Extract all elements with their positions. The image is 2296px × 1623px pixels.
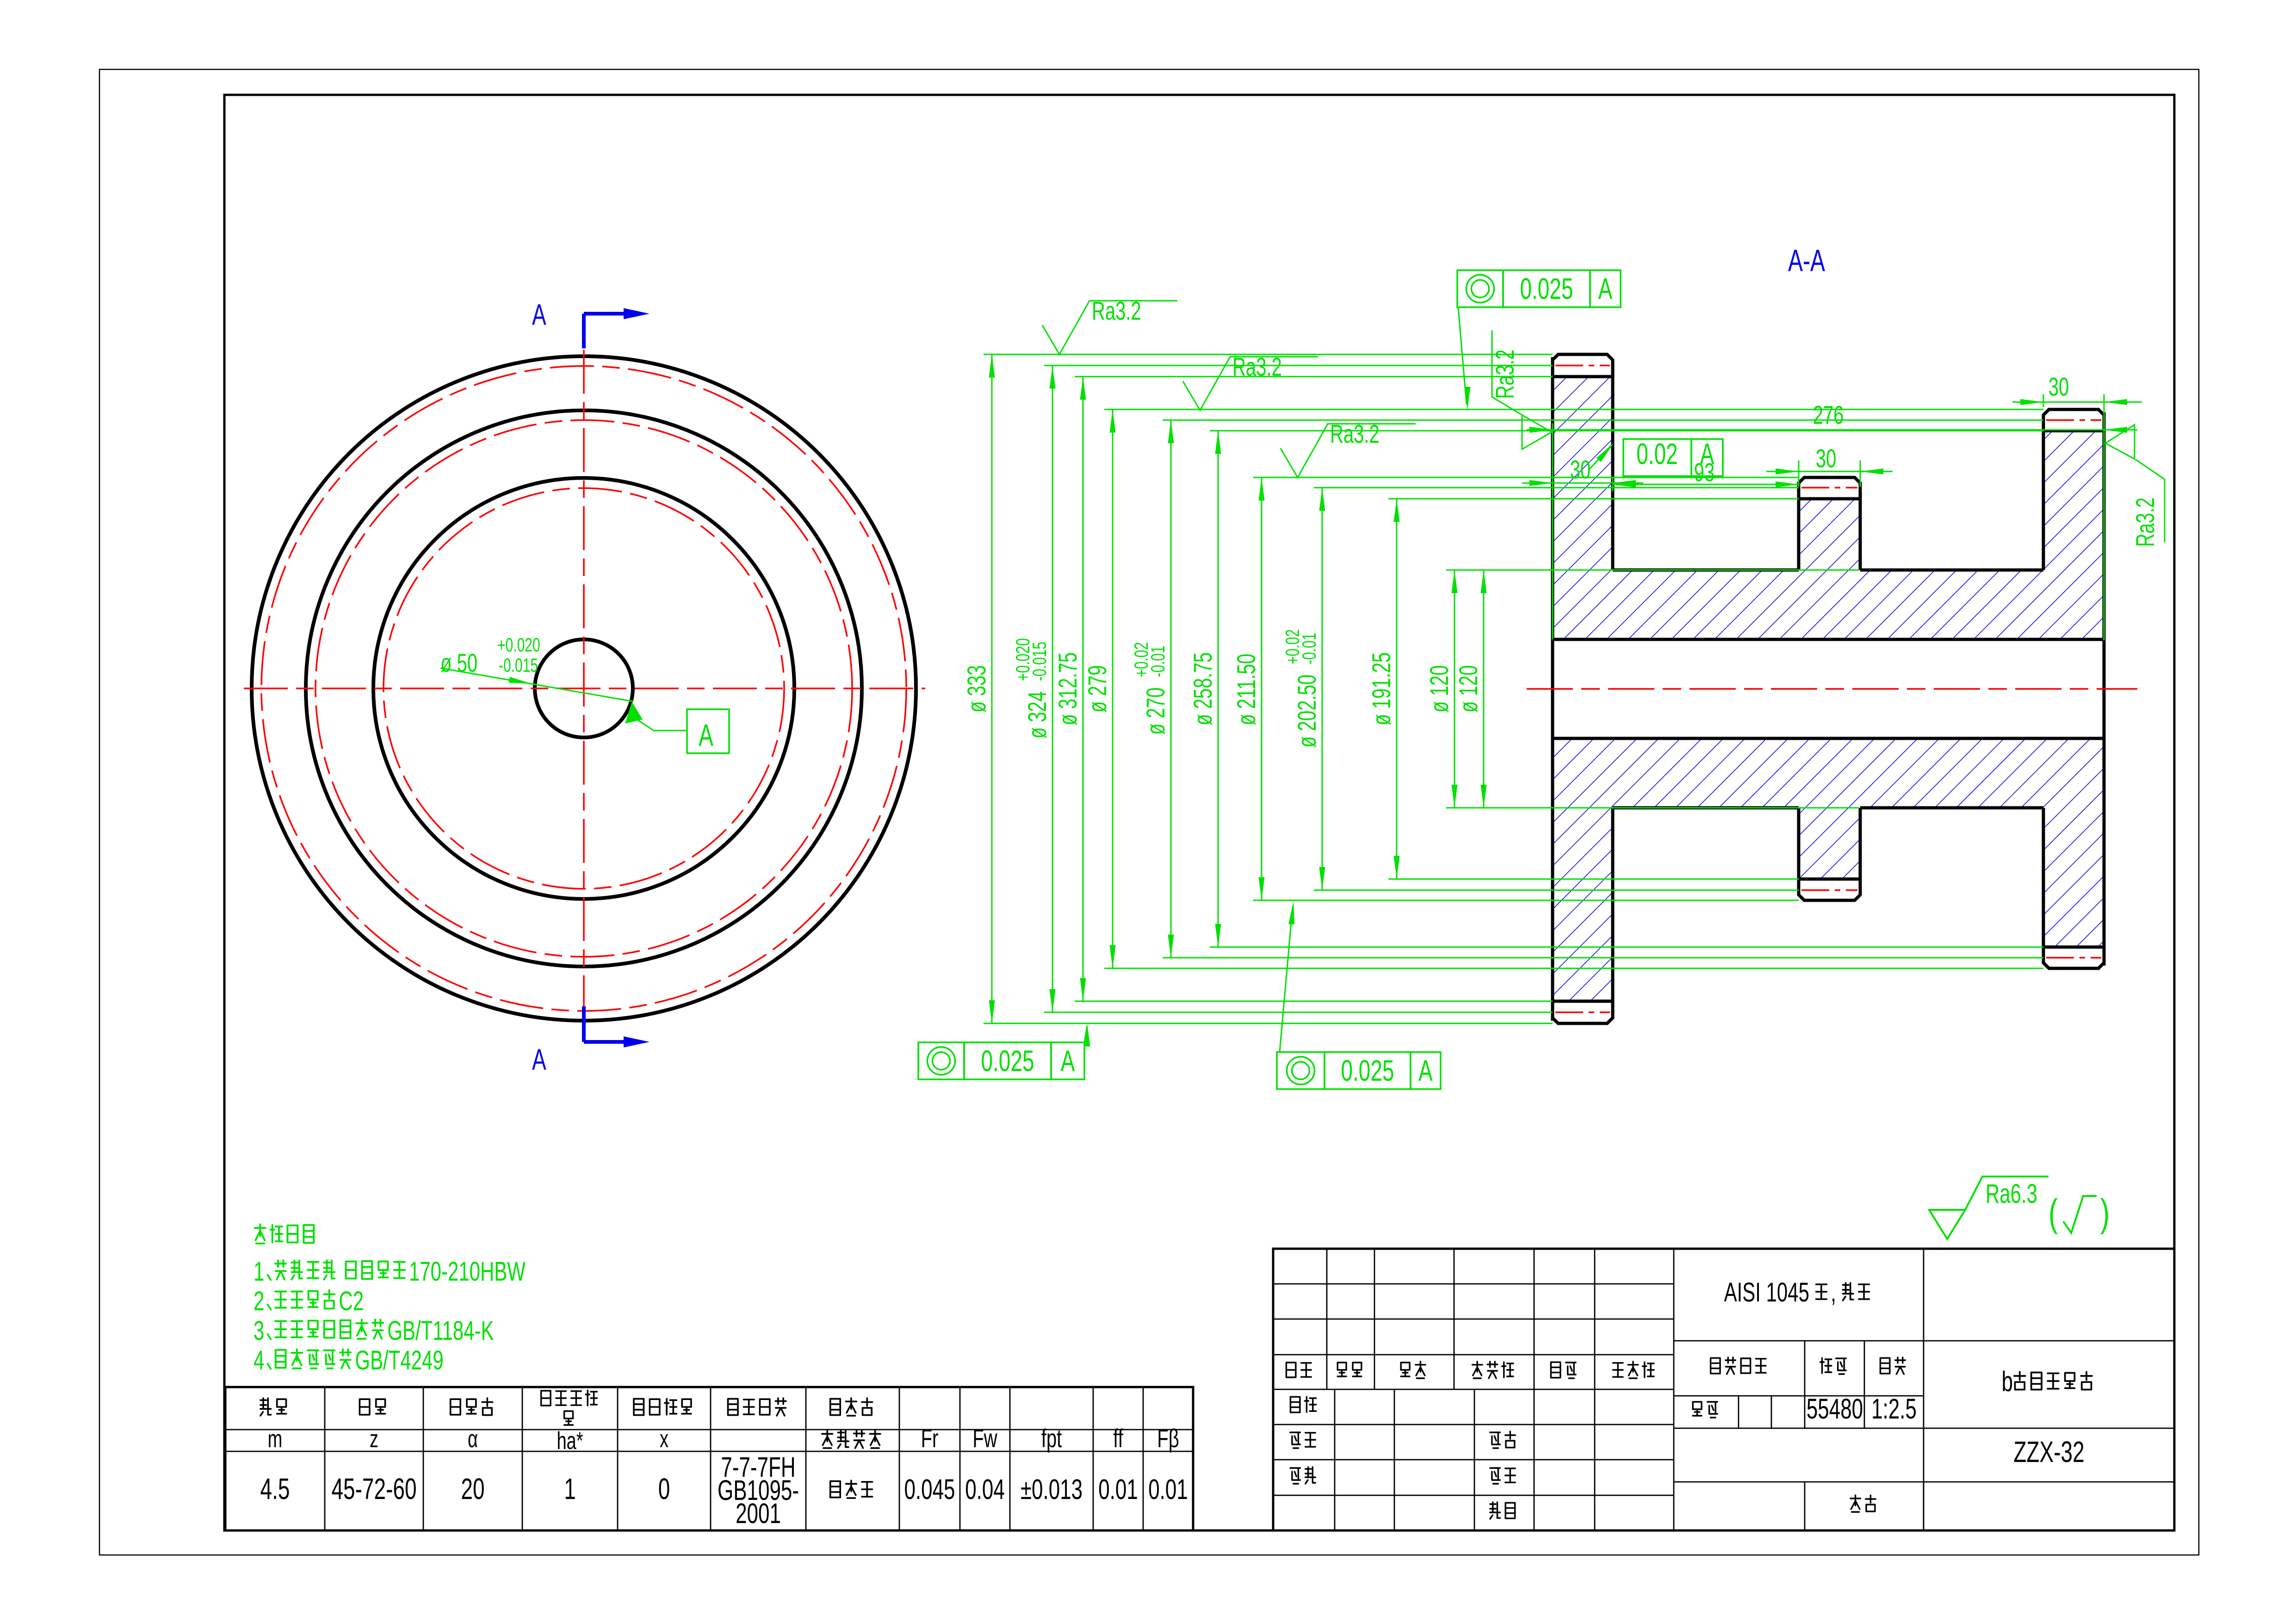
svg-text:1: 1 [254,1256,264,1286]
svg-text:α: α [468,1425,478,1453]
svg-text:30: 30 [1816,445,1837,473]
svg-text:0.01: 0.01 [1148,1474,1188,1505]
right end face [2103,412,2106,966]
dim ø 120 [1483,570,1485,808]
svg-text:ø 270: ø 270 [1142,688,1170,735]
svg-text:ø 120: ø 120 [1425,665,1454,712]
svg-text:4.5: 4.5 [260,1473,290,1505]
bottom-left frame leader [1084,1026,1087,1042]
svg-text:ø 324: ø 324 [1023,691,1052,738]
svg-text:Ra3.2: Ra3.2 [1491,349,1520,399]
gear3 column edges [2042,431,2045,570]
svg-text:0.025: 0.025 [981,1045,1034,1078]
svg-text:AISI 1045: AISI 1045 [1724,1277,1809,1307]
dim ø 324 [1052,365,1053,1012]
svg-text:ø 279: ø 279 [1083,665,1112,712]
runout frame 0.02 A [1623,439,1691,476]
gear1 pitch lines red [1555,365,1610,366]
gear2 column edges [1797,499,1801,570]
gear3 pitch lines red [2046,419,2101,421]
top frame leader [1458,307,1467,404]
dim ø 120 [1454,570,1455,808]
barrel surfaces [1613,569,1799,572]
dim ø 202.50 [1322,488,1323,890]
svg-text:0.04: 0.04 [965,1474,1005,1505]
concentricity frame bottom-middle [1277,1052,1324,1089]
section centerline red [1527,688,2137,690]
svg-text:ZZX-32: ZZX-32 [2013,1436,2084,1468]
section cut mark A bottom [582,1006,586,1042]
svg-text:Ra6.3: Ra6.3 [1986,1178,2037,1208]
svg-text:Fr: Fr [921,1425,939,1453]
sheet inner border frame [224,95,2174,1530]
dim 30 left flange with leader [1522,483,1643,484]
dim ø 279 [1112,409,1114,968]
svg-text:GB/T4249: GB/T4249 [355,1345,443,1375]
front view tip circle o279 [306,410,862,966]
svg-text:45-72-60: 45-72-60 [331,1473,416,1505]
dim ø 270 [1170,420,1172,958]
gear3 rim caps [2043,409,2104,431]
svg-text:b: b [2002,1366,2013,1398]
datum A triangle and box [625,702,643,724]
dim 30 middle gear [1798,460,1800,487]
svg-text:4: 4 [254,1345,264,1375]
svg-text:ø 258.75: ø 258.75 [1189,652,1218,725]
svg-text:x: x [660,1425,668,1453]
svg-text:-0.015: -0.015 [499,654,538,676]
front view tip circle o333 [252,356,916,1021]
svg-text:0.045: 0.045 [904,1474,955,1505]
svg-text:0.01: 0.01 [1098,1474,1138,1505]
gear1 column edges [1611,377,1615,570]
svg-text:20: 20 [461,1473,484,1505]
svg-text:ø 191.25: ø 191.25 [1368,652,1396,725]
dim ø 211.50 [1261,477,1262,900]
svg-text:ø 333: ø 333 [963,665,991,712]
svg-text:ø 202.50: ø 202.50 [1293,675,1322,748]
concentricity frame bottom-left [918,1042,964,1079]
svg-text:170-210HBW: 170-210HBW [409,1256,526,1286]
parameter table [225,1387,1193,1530]
svg-text:0.025: 0.025 [1341,1054,1394,1087]
section cut mark A top [582,314,586,348]
svg-text:A: A [699,718,713,753]
section hatching [1553,377,1613,570]
svg-text:0.02: 0.02 [1636,438,1678,471]
gear1 rim caps [1553,354,1613,377]
front view pitch circle o270 [316,420,852,957]
dim 30 right flange [2043,394,2044,407]
svg-text:30: 30 [2048,373,2069,402]
extension verticals on part faces [1552,423,1553,639]
svg-text:z: z [370,1425,378,1453]
bore leader [440,668,633,701]
svg-text:GB/T1184-K: GB/T1184-K [387,1315,494,1345]
svg-text:Fβ: Fβ [1157,1425,1179,1453]
gear2 pitch lines red [1801,487,1857,489]
svg-text:Ra3.2: Ra3.2 [1330,420,1380,449]
svg-text:C2: C2 [339,1286,364,1316]
front view horizontal centerline [244,688,925,689]
svg-text:1:2.5: 1:2.5 [1871,1394,1917,1425]
front view vertical centerline [583,350,585,1028]
front view pitch circle o202.5 [384,488,784,889]
svg-text:ø 312.75: ø 312.75 [1054,652,1083,725]
svg-text:A: A [1061,1045,1075,1078]
svg-text:ff: ff [1113,1425,1123,1453]
svg-text:A: A [1598,273,1613,305]
Ra3.2 rotated right face [2105,425,2165,542]
svg-text:(: ( [2048,1191,2058,1234]
svg-text:m: m [268,1425,283,1453]
svg-text:fpt: fpt [1041,1425,1062,1453]
concentricity frame top [1457,270,1503,307]
extension lines [984,354,1553,355]
Ra6.3 symbol near title block [1929,1177,2048,1239]
gear2 rim caps [1799,477,1860,499]
svg-text:-0.01: -0.01 [1298,633,1320,664]
title block texts [1286,1363,1296,1377]
technical requirements [255,1224,266,1243]
svg-text:A: A [1700,438,1714,471]
svg-text:30: 30 [1570,456,1591,484]
dim ø 191.25 [1396,499,1398,879]
dim 276 [1527,429,2137,431]
svg-text:-0.015: -0.015 [1028,642,1050,681]
front view bore circle o50 [535,639,633,737]
svg-text:Fw: Fw [972,1425,997,1453]
left end face [1551,357,1554,1021]
svg-text:+0.020: +0.020 [497,634,540,656]
svg-text:1: 1 [564,1473,576,1505]
svg-text:ø 211.50: ø 211.50 [1232,654,1261,725]
svg-text:ha*: ha* [557,1427,583,1455]
svg-text:A-A: A-A [1788,243,1825,278]
svg-text:276: 276 [1813,401,1844,430]
svg-text:±0.013: ±0.013 [1021,1474,1083,1505]
dim ø 258.75 [1218,431,1219,947]
svg-text:3: 3 [254,1315,264,1345]
svg-text:ø 120: ø 120 [1454,665,1483,712]
svg-text:2001: 2001 [736,1498,781,1530]
svg-text:A: A [532,1043,546,1076]
svg-text:Ra3.2: Ra3.2 [2131,497,2160,547]
svg-text:55480: 55480 [1807,1394,1863,1425]
svg-text:Ra3.2: Ra3.2 [1232,353,1282,382]
svg-text:0.025: 0.025 [1520,273,1573,305]
Ra3.2 symbol 1 [1042,301,1177,354]
Ra3.2 symbol 3 [1281,424,1416,477]
svg-text:Ra3.2: Ra3.2 [1092,297,1141,326]
svg-text:,: , [1831,1277,1836,1307]
svg-text:): ) [2100,1191,2110,1234]
bore walls [1553,638,2104,641]
Ra3.2 rotated left flange face [1492,330,1552,449]
svg-text:2: 2 [254,1286,264,1316]
table header row1 [260,1398,271,1416]
svg-text:A: A [1418,1054,1433,1087]
title block [1273,1249,2174,1530]
Ra3.2 symbol 2 [1183,357,1318,410]
bottom-middle frame leader [1280,907,1293,1052]
front view pitch circle o324 [261,366,906,1011]
svg-text:A: A [532,298,546,331]
svg-text:-0.01: -0.01 [1147,645,1169,677]
dim ø 312.75 [1083,377,1084,1001]
dim ø 333 [991,354,993,1023]
dim 93 [1613,484,1799,485]
front view tip circle o211.5 [373,478,794,899]
svg-text:0: 0 [658,1473,670,1505]
